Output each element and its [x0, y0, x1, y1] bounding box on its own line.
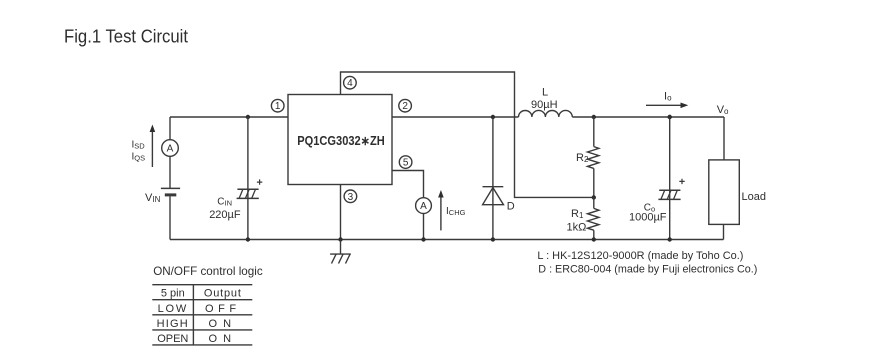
svg-text:L: L [542, 87, 548, 99]
wire pin4 feedback net (up, right, down past rail, right to divider) [341, 72, 594, 197]
arrow ICHG [438, 190, 444, 230]
wire pin5 to ICHG ammeter [392, 171, 424, 198]
node CIN bottom junction [246, 237, 250, 241]
arrow ISD/IQS (current direction) [150, 125, 156, 168]
wire top rail right (pin2 to inductor) [392, 116, 519, 118]
svg-text:ON: ON [209, 333, 238, 345]
svg-text:ISD: ISD [132, 140, 146, 151]
wire diode branch [492, 117, 494, 240]
svg-text:OFF: OFF [205, 303, 241, 315]
pin 4 [344, 76, 357, 89]
svg-text:1000µF: 1000µF [629, 212, 667, 224]
wire pin3 to ground rail [340, 185, 342, 240]
svg-text:R2: R2 [576, 152, 589, 164]
ammeter A (input, ISD/IQS) [162, 140, 179, 157]
wire top rail left (VIN corner to IC pin1) [170, 116, 288, 118]
svg-text:220µF: 220µF [209, 209, 241, 221]
inductor L (4 humps) [519, 110, 573, 117]
node Io junction (Co branch) [668, 115, 672, 119]
svg-text:5: 5 [403, 158, 409, 169]
pin 1 [271, 99, 284, 112]
capacitor CIN (polarized electrolytic symbol) [237, 179, 263, 198]
svg-text:ON/OFF control logic: ON/OFF control logic [153, 264, 263, 278]
wire ammeter to bottom rail [423, 214, 425, 240]
svg-text:ON: ON [209, 318, 238, 330]
svg-text:Output: Output [204, 287, 242, 299]
capacitor Co (polarized electrolytic symbol) [658, 179, 684, 200]
node ICHG junction on bottom rail [421, 237, 425, 241]
svg-text:LOW: LOW [158, 303, 188, 315]
svg-text:A: A [167, 144, 174, 155]
svg-text:5 pin: 5 pin [161, 287, 185, 299]
wire left branch upper (top corner down to ammeter) [169, 117, 171, 140]
svg-text:CIN: CIN [217, 197, 232, 208]
svg-text:D: D [507, 201, 515, 213]
wire battery to bottom rail [169, 196, 171, 239]
svg-text:IQS: IQS [132, 152, 146, 163]
node CIN top junction [246, 115, 250, 119]
wire ammeter to battery [169, 156, 171, 188]
node diode top junction [491, 115, 495, 119]
svg-text:Fig.1 Test Circuit: Fig.1 Test Circuit [64, 27, 188, 47]
svg-text:PQ1CG3032∗ZH: PQ1CG3032∗ZH [297, 134, 385, 148]
pin 2 [399, 99, 412, 112]
load (resistive load box) [709, 160, 740, 225]
arrow Io [646, 103, 688, 109]
wire midpoint to R1 [593, 197, 595, 208]
svg-text:D : ERC80-004 (made by Fuji el: D : ERC80-004 (made by Fuji electronics … [538, 264, 757, 276]
svg-text:Load: Load [742, 191, 766, 203]
ammeter A (ICHG) [416, 198, 432, 214]
wire R1 bottom [593, 230, 595, 239]
svg-text:ICHG: ICHG [446, 206, 466, 217]
node feedback midpoint junction [592, 195, 596, 199]
node Co bottom junction [668, 237, 672, 241]
node R1 bottom junction [592, 237, 596, 241]
wire ground stub [340, 240, 342, 255]
svg-text:A: A [420, 201, 427, 212]
wire top rail right (inductor to Vo corner) [572, 116, 724, 118]
wire bottom rail [170, 239, 724, 241]
pin 5 [399, 156, 412, 169]
wire CIN branch [247, 117, 249, 240]
resistor R1 [588, 208, 599, 230]
IC U1 PQ1CG3032*ZH [288, 95, 392, 185]
svg-text:R1: R1 [571, 208, 584, 220]
svg-text:L : HK-12S120-9000R (made by T: L : HK-12S120-9000R (made by Toho Co.) [537, 250, 743, 262]
node pin3 junction on bottom rail [338, 237, 342, 241]
svg-text:3: 3 [348, 192, 354, 203]
svg-text:Vo: Vo [717, 104, 729, 116]
ground (chassis) [330, 254, 351, 263]
svg-text:1kΩ: 1kΩ [567, 222, 587, 234]
wire R2 top [593, 117, 595, 147]
svg-text:2: 2 [402, 101, 408, 112]
svg-text:90µH: 90µH [531, 99, 558, 111]
resistor R2 [588, 147, 599, 169]
svg-text:Io: Io [664, 90, 672, 102]
node R2 top junction [592, 115, 596, 119]
wire load branch bottom [723, 224, 725, 239]
table ON/OFF logic lines [152, 285, 252, 345]
svg-text:1: 1 [275, 101, 281, 112]
pin 3 [344, 190, 357, 203]
battery VIN [161, 188, 180, 195]
svg-text:HIGH: HIGH [157, 318, 189, 330]
wire Co branch [669, 117, 671, 240]
svg-text:4: 4 [347, 78, 353, 89]
node diode bottom junction [491, 237, 495, 241]
wire R2 bottom to midpoint [593, 168, 595, 197]
diode D [483, 187, 504, 205]
wire load branch top [723, 117, 725, 160]
svg-text:VIN: VIN [145, 192, 161, 204]
node Co top junction [668, 115, 672, 119]
svg-text:OPEN: OPEN [157, 333, 188, 345]
